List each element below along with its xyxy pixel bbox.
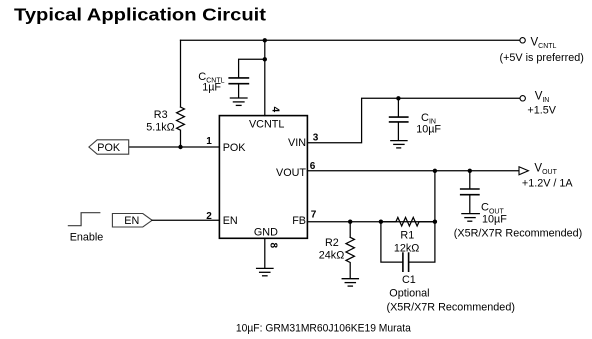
svg-text:C1: C1	[402, 274, 416, 286]
wire C1 left leg	[381, 222, 403, 262]
label CCNTL value	[198, 71, 224, 94]
svg-text:4: 4	[270, 107, 281, 113]
wire pin6 VOUT	[307, 170, 518, 172]
svg-text:10µF: 10µF	[482, 213, 507, 225]
label R1 12k	[394, 229, 419, 254]
svg-text:GND: GND	[254, 227, 278, 239]
svg-text:VIN: VIN	[288, 137, 306, 149]
node junction POK/R3	[178, 145, 182, 149]
wire POK to pin1	[129, 146, 220, 148]
capacitor CCNTL	[229, 78, 248, 84]
svg-text:+1.5V: +1.5V	[527, 105, 556, 117]
capacitor COUT	[461, 189, 479, 195]
waveform enable step	[68, 213, 99, 226]
svg-text:10µF: GRM31MR60J106KE19 Murata: 10µF: GRM31MR60J106KE19 Murata	[236, 322, 411, 334]
node junction top rail / pin4	[263, 38, 267, 42]
capacitor CIN	[390, 117, 408, 122]
svg-text:3: 3	[313, 133, 319, 144]
svg-text:(+5V is preferred): (+5V is preferred)	[500, 52, 584, 64]
svg-text:POK: POK	[223, 142, 247, 154]
svg-text:R2: R2	[325, 237, 339, 249]
node junction VOUT/FB divider	[433, 169, 437, 173]
svg-text:1: 1	[206, 136, 212, 147]
svg-text:Typical Application Circuit: Typical Application Circuit	[14, 5, 266, 25]
flag EN	[112, 214, 152, 228]
node junction R1 right	[433, 220, 437, 224]
wire COUT to ground	[469, 195, 471, 213]
svg-text:7: 7	[311, 210, 317, 221]
svg-text:Enable: Enable	[70, 231, 104, 243]
svg-text:VOUT: VOUT	[276, 167, 306, 179]
svg-text:(X5R/X7R Recommended): (X5R/X7R Recommended)	[454, 228, 582, 240]
svg-text:R1: R1	[400, 229, 414, 241]
op-amp U1 regulator body	[219, 116, 307, 239]
node junction C1 left	[379, 220, 383, 224]
svg-text:10µF: 10µF	[416, 124, 441, 136]
ground R2	[342, 279, 358, 286]
wire CCNTL branch	[239, 59, 265, 77]
label COUT value	[481, 202, 507, 226]
svg-text:VCNTL: VCNTL	[249, 118, 284, 130]
svg-text:24kΩ: 24kΩ	[319, 250, 344, 262]
ground CCNTL	[230, 98, 247, 105]
svg-text:VIN: VIN	[535, 90, 550, 104]
wire EN to pin2	[152, 219, 219, 221]
svg-text:12kΩ: 12kΩ	[394, 242, 419, 254]
wire COUT top	[469, 171, 471, 189]
wire pin3 VIN	[307, 98, 519, 142]
ground CIN	[391, 141, 407, 148]
svg-text:EN: EN	[223, 215, 238, 227]
svg-text:FB: FB	[292, 215, 306, 227]
wire CIN to ground	[397, 123, 399, 141]
svg-text:5.1kΩ: 5.1kΩ	[146, 122, 174, 134]
svg-text:6: 6	[310, 161, 316, 172]
svg-text:POK: POK	[97, 142, 121, 154]
ground GND pin	[257, 268, 273, 275]
svg-text:Optional: Optional	[389, 287, 429, 299]
label R3 5.1k	[146, 109, 174, 133]
svg-text:VCNTL: VCNTL	[531, 36, 557, 50]
svg-text:2: 2	[206, 211, 212, 222]
wire pin7 FB	[307, 221, 435, 223]
node junction R2 tap	[348, 220, 352, 224]
svg-text:(X5R/X7R Recommended): (X5R/X7R Recommended)	[387, 301, 515, 313]
wire C1 right leg	[409, 222, 435, 262]
terminal circle VCNTL	[520, 38, 525, 43]
terminal circle VIN	[520, 96, 525, 101]
svg-text:+1.2V / 1A: +1.2V / 1A	[522, 178, 574, 190]
svg-text:R3: R3	[154, 109, 168, 121]
wire pin4 rail	[264, 40, 266, 115]
wire VOUT down to FB	[434, 171, 436, 222]
svg-text:8: 8	[267, 243, 278, 249]
svg-text:VOUT: VOUT	[534, 162, 557, 176]
wire CCNTL to ground	[238, 84, 240, 97]
node junction CCNTL tap	[263, 57, 267, 61]
resistor R3	[177, 107, 185, 147]
resistor R1	[381, 217, 435, 226]
svg-text:EN: EN	[124, 215, 139, 227]
label CIN value	[416, 112, 441, 136]
ground COUT	[462, 214, 479, 222]
wire GND pin8	[264, 238, 266, 268]
label C1	[387, 274, 515, 313]
wire left rail down to R3	[180, 40, 182, 107]
svg-text:1µF: 1µF	[202, 81, 221, 93]
node junction COUT tap	[468, 169, 472, 173]
flag POK	[89, 140, 129, 154]
label R2 24k	[319, 237, 344, 261]
capacitor C1	[403, 253, 409, 271]
terminal arrow VOUT	[519, 167, 528, 175]
node junction CIN tap	[396, 96, 400, 100]
wire top VCNTL rail	[181, 39, 520, 41]
wire CIN top	[397, 98, 399, 116]
resistor R2	[346, 237, 354, 278]
wire R2 top	[349, 222, 351, 238]
